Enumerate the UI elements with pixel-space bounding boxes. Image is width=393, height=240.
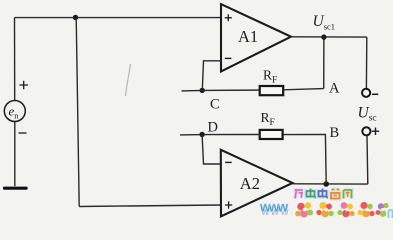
wire source bottom vertical <box>14 122 16 187</box>
wire long vertical <box>76 18 79 207</box>
svg-text:B: B <box>330 125 340 141</box>
wire D to resistor RF2 <box>202 134 260 136</box>
wire A1 minus input stub <box>202 61 221 91</box>
terminal minus mark <box>372 93 378 95</box>
wire A2 output <box>293 183 368 185</box>
node D <box>199 132 204 137</box>
svg-text:A1: A1 <box>238 27 258 46</box>
wire A2 minus input stub <box>202 135 221 165</box>
glow under glyphs <box>295 189 352 199</box>
glyph 4 (orange) <box>331 190 340 199</box>
node A vertical wire <box>323 37 325 88</box>
blue n <box>389 210 393 218</box>
wire node B <box>283 135 326 185</box>
flower cluster 3 <box>337 202 354 217</box>
junction B on output <box>323 181 329 187</box>
node C <box>200 88 205 93</box>
watermark flower glyphs <box>295 202 392 218</box>
flower cluster 2 <box>316 202 333 217</box>
svg-text:www: www <box>259 200 289 215</box>
flower cluster 1 <box>295 202 313 217</box>
svg-text:C: C <box>210 97 220 113</box>
glyph 5 (green-orange) <box>344 190 352 199</box>
ground bar <box>3 187 28 190</box>
flower cluster 4 <box>357 202 374 217</box>
glyph 1 (pink) <box>295 190 304 199</box>
junction top <box>73 15 78 20</box>
source minus label <box>19 132 27 134</box>
wire A1 output <box>291 36 367 38</box>
glyph 2 (teal) <box>307 189 317 198</box>
A1 plus input mark <box>225 14 232 21</box>
op-amp A1 <box>221 4 291 71</box>
wire C to resistor RF1 <box>202 89 259 91</box>
A2 plus input mark <box>225 201 232 208</box>
wire plus terminal down <box>366 136 369 185</box>
wire source top vertical <box>14 18 16 101</box>
pencil smudge artifact <box>126 64 131 96</box>
wire C horizontal left stub <box>182 89 203 92</box>
svg-text:A: A <box>329 81 340 97</box>
A1 minus input mark <box>225 57 232 59</box>
glyph 3 (blue-purple) <box>319 189 329 198</box>
terminal minus <box>362 89 370 97</box>
wire right vertical to minus terminal <box>365 37 367 88</box>
source e_n <box>4 101 25 122</box>
junction Usc1 <box>321 34 326 39</box>
wire D horizontal left stub <box>180 134 202 136</box>
flower cluster 5 <box>376 203 389 217</box>
source plus label <box>20 81 29 90</box>
op-amp A2 <box>221 150 293 217</box>
wire bottom horizontal to A2 + input <box>79 205 221 207</box>
svg-text:D: D <box>208 119 218 135</box>
resistor RF2 <box>260 130 283 139</box>
watermark site name row <box>295 189 352 199</box>
wire resistor RF1 to node A <box>283 89 324 90</box>
wire top horizontal from source to A1 + input <box>15 17 222 19</box>
A2 minus input mark <box>225 161 232 163</box>
terminal plus mark <box>372 128 379 136</box>
svg-text:A2: A2 <box>240 174 260 193</box>
resistor RF1 <box>260 86 284 95</box>
terminal plus <box>362 127 370 135</box>
